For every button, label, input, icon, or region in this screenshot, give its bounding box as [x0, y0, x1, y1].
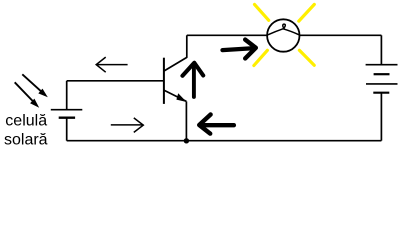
transistor Q1 collector vertical wire: [186, 35, 188, 58]
wire right vertical battery bottom: [380, 93, 382, 141]
battery short plate 1: [374, 73, 390, 75]
svg-text:celulă: celulă: [5, 113, 47, 130]
current arrow thin left (top of solar loop): [96, 57, 127, 72]
wire right vertical battery top: [380, 35, 382, 64]
current arrow thick left (return current): [199, 115, 234, 134]
solar cell short plate: [59, 116, 75, 118]
transistor Q1 collector diagonal: [164, 57, 187, 71]
current arrow thin right (bottom of solar loop): [111, 118, 144, 132]
wire solar cell bottom terminal: [66, 118, 68, 141]
light ray arrow 1 into solar cell: [22, 74, 48, 97]
lamp filament with loop: [267, 24, 299, 35]
svg-text:solară: solară: [4, 131, 48, 148]
battery short plate 2: [373, 92, 389, 94]
lamp ray SE: [299, 50, 314, 65]
lamp ray NE: [299, 4, 315, 21]
wire solar cell top terminal: [66, 81, 68, 110]
battery long plate 1: [366, 64, 398, 66]
wire bottom return: [67, 140, 382, 142]
junction node dot: [184, 138, 189, 143]
lamp bulb circle: [267, 19, 299, 51]
solar cell long plate: [51, 109, 83, 111]
battery long plate 2: [366, 83, 398, 85]
wire top from transistor collector to battery: [187, 34, 382, 36]
transistor Q1 emitter arrowhead: [176, 93, 186, 102]
transistor Q1 emitter diagonal: [164, 90, 186, 101]
current arrow thick right (to lamp): [223, 40, 256, 59]
wire emitter down to bottom node: [185, 101, 187, 140]
lamp ray SW: [254, 50, 268, 65]
current arrow thick up (collector current): [183, 63, 204, 97]
transistor Q1 base bar: [163, 58, 165, 104]
light ray arrow 2 into solar cell: [15, 82, 40, 107]
wire base of transistor: [67, 80, 164, 82]
lamp ray NW: [255, 4, 269, 20]
